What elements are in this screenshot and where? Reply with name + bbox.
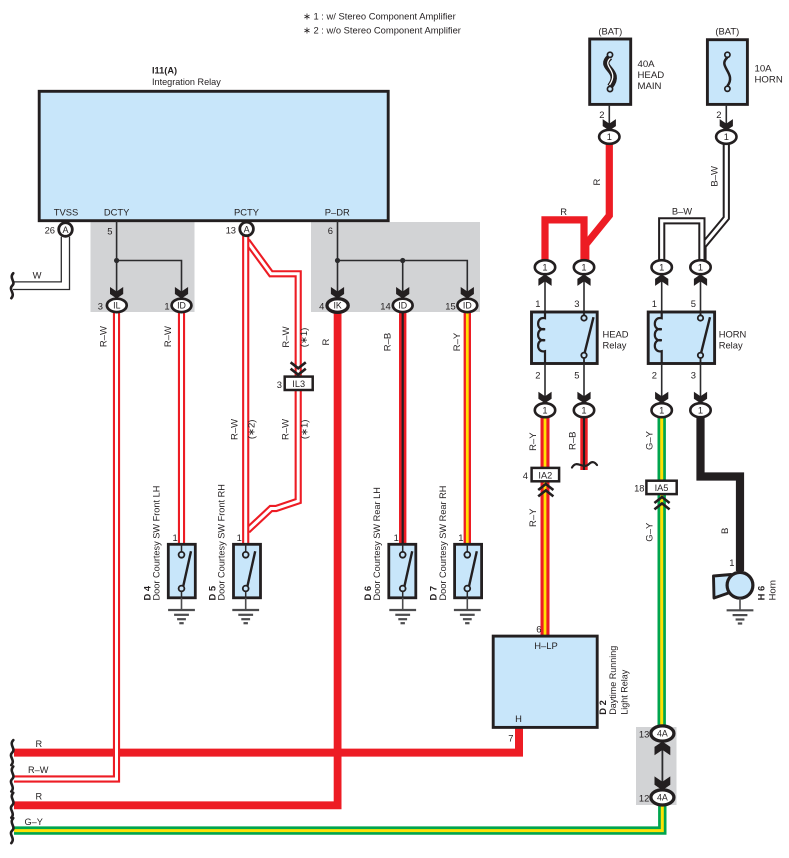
arrow into ID 14 — [396, 287, 409, 299]
door courtesy switch D 5 — [234, 544, 261, 598]
squiggle end of R-B stub — [572, 462, 597, 467]
HORN relay switch — [700, 312, 702, 315]
svg-text:4A: 4A — [657, 793, 668, 803]
wire relay bottom pin to connector x=700.5 — [700, 364, 702, 399]
wire R jumper between HEAD relay pin 1 and pin 3 connectors — [545, 220, 584, 261]
svg-text:R–Y: R–Y — [528, 432, 539, 451]
wire pin 5 DCTY to junction — [116, 221, 118, 261]
svg-text:3: 3 — [98, 300, 103, 311]
wire R-W (*2) from PCTY pin 13 to D5 — [242, 235, 249, 546]
svg-text:6: 6 — [328, 225, 333, 236]
svg-text:15: 15 — [445, 300, 455, 311]
door courtesy switch D 6 — [389, 544, 416, 598]
svg-text:2: 2 — [652, 370, 657, 381]
svg-text:R–W: R–W — [163, 326, 174, 347]
svg-text:R–B: R–B — [567, 432, 578, 450]
wire junction to IL branch — [116, 261, 118, 297]
wire R bus (to IK pin 4) + wire IK vertical — [14, 312, 338, 806]
junction node P-DR 2 — [400, 258, 405, 263]
svg-text:R–B: R–B — [383, 333, 394, 351]
svg-text:IL: IL — [113, 301, 120, 311]
connector 1 above relay x=545 — [535, 260, 555, 274]
svg-text:1: 1 — [172, 532, 177, 543]
wire G-Y bus (to 4A pin 12) — [14, 805, 662, 831]
HEAD relay coil — [538, 312, 545, 364]
arrow into ID — [175, 287, 188, 299]
ground horn — [739, 598, 741, 610]
svg-text:IL3: IL3 — [292, 379, 305, 389]
svg-text:W: W — [33, 270, 42, 281]
svg-text:B: B — [720, 528, 731, 534]
svg-text:R–W: R–W — [281, 326, 292, 347]
svg-text:I11(A): I11(A) — [152, 66, 177, 76]
svg-text:B–W: B–W — [710, 166, 721, 187]
svg-text:1: 1 — [164, 300, 169, 311]
svg-text:ID: ID — [398, 301, 407, 311]
svg-text:1: 1 — [237, 532, 242, 543]
svg-text:R–W: R–W — [230, 419, 241, 440]
wire B from HORN relay pin 3 to horn H6 — [701, 417, 741, 571]
svg-text:1: 1 — [698, 406, 703, 416]
svg-text:R: R — [321, 338, 332, 345]
wire R-W (*1) branch via IL3 to D5 — [247, 241, 298, 531]
svg-text:26: 26 — [45, 225, 55, 236]
ground D 7 — [466, 598, 468, 610]
svg-text:G–Y: G–Y — [25, 817, 43, 827]
wire fuse HORN to connector — [725, 104, 727, 128]
squiggle break W wire — [11, 273, 13, 298]
svg-text:5: 5 — [107, 226, 112, 237]
up arrow below connector x=545 — [544, 278, 546, 312]
svg-text:D 2: D 2 — [597, 700, 608, 715]
ground D 5 — [245, 598, 247, 610]
svg-text:1: 1 — [581, 406, 586, 416]
squiggle R bus 2 — [11, 793, 13, 818]
connector 1 below HEAD fuse — [599, 130, 619, 144]
junction node P-DR 1 — [335, 258, 340, 263]
horn H6 symbol — [714, 575, 732, 599]
svg-text:14: 14 — [380, 300, 390, 311]
svg-text:3: 3 — [277, 379, 282, 390]
svg-text:2: 2 — [599, 109, 604, 120]
svg-text:TVSS: TVSS — [54, 207, 79, 218]
svg-text:R: R — [592, 178, 603, 185]
svg-text:H–LP: H–LP — [534, 640, 557, 651]
svg-text:R–Y: R–Y — [452, 332, 463, 351]
connector 1 below relay x=584 — [574, 403, 594, 417]
svg-text:1: 1 — [542, 406, 547, 416]
svg-text:12: 12 — [639, 793, 649, 804]
svg-text:1: 1 — [542, 263, 547, 273]
svg-text:(∗1): (∗1) — [299, 420, 310, 440]
svg-text:Integration Relay: Integration Relay — [152, 77, 221, 87]
svg-text:R: R — [36, 739, 43, 749]
junction node DCTY — [114, 258, 119, 263]
wire relay bottom pin to connector x=584 — [583, 364, 585, 399]
connector 1 above relay x=700.5 — [690, 260, 710, 274]
svg-text:ID: ID — [177, 301, 186, 311]
wire pin 6 P-DR to junction — [337, 221, 339, 261]
double chevron below IA2 — [538, 484, 553, 490]
up arrow below connector x=661.7 — [661, 278, 663, 312]
svg-text:∗ 2 : w/o Stereo Component Amp: ∗ 2 : w/o Stereo Component Amplifier — [303, 25, 461, 36]
arrow into IL — [110, 287, 123, 299]
connector shading block P-DR (pins 6/4/14/15) — [311, 222, 480, 312]
connector 1 below relay x=545 — [535, 403, 555, 417]
svg-text:(BAT): (BAT) — [715, 26, 739, 37]
svg-text:HEAD: HEAD — [603, 329, 629, 340]
ground D 4 — [181, 598, 183, 610]
HORN relay coil — [655, 312, 662, 364]
svg-text:R–Y: R–Y — [528, 508, 539, 527]
svg-text:1: 1 — [394, 532, 399, 543]
svg-text:B–W: B–W — [672, 206, 692, 217]
svg-text:R: R — [560, 206, 567, 217]
svg-text:Daytime Running: Daytime Running — [608, 646, 618, 715]
arrow into ID 15 — [461, 287, 474, 299]
wire R bus (to D2 pin 7) — [14, 727, 519, 753]
HEAD relay switch — [583, 312, 585, 315]
svg-text:Door Courtesy SW Front LH: Door Courtesy SW Front LH — [152, 486, 162, 601]
arrow pair between 4A connectors — [661, 748, 663, 783]
svg-text:H 6: H 6 — [756, 586, 767, 601]
HEAD relay box — [532, 312, 598, 364]
svg-text:A: A — [62, 225, 68, 235]
wire R-W bus + IL vertical wire (pin 3 to left edge) — [14, 312, 117, 780]
wire G-Y from HORN relay pin 2 via IA5 to 4A pin 13 — [658, 417, 666, 727]
svg-text:3: 3 — [691, 370, 696, 381]
wire B-W from 10A HORN fuse to HORN relay pin 5 connector — [703, 142, 726, 261]
svg-text:13: 13 — [639, 729, 649, 740]
wire R-Y from pin 15 ID to D7 — [464, 312, 471, 547]
svg-text:IA5: IA5 — [655, 483, 669, 493]
door courtesy switch D 7 — [455, 544, 482, 598]
wire relay bottom pin to connector x=661.7 — [661, 364, 663, 399]
connector 1 below HORN fuse — [716, 130, 736, 144]
svg-text:Door Courtesy SW Front RH: Door Courtesy SW Front RH — [217, 484, 227, 600]
svg-text:ID: ID — [463, 301, 472, 311]
svg-text:DCTY: DCTY — [104, 207, 130, 218]
svg-text:Light Relay: Light Relay — [620, 669, 630, 715]
svg-text:R–W: R–W — [28, 765, 49, 775]
svg-text:1: 1 — [458, 532, 463, 543]
svg-text:2: 2 — [716, 109, 721, 120]
svg-text:G–Y: G–Y — [644, 430, 655, 450]
svg-text:(BAT): (BAT) — [598, 26, 622, 37]
svg-text:6: 6 — [536, 624, 541, 635]
svg-text:Relay: Relay — [719, 340, 743, 351]
svg-text:10A: 10A — [755, 64, 773, 75]
svg-text:1: 1 — [535, 298, 540, 309]
wire W from pin 26 to left edge (hollow) — [13, 237, 61, 282]
HORN relay box — [648, 312, 714, 364]
svg-text:1: 1 — [698, 263, 703, 273]
svg-text:HEAD: HEAD — [638, 70, 665, 81]
squiggle R bus 1 — [11, 740, 13, 765]
connector shading block DCTY (pins 5/3/1) — [91, 222, 195, 312]
connector 1 below relay x=661.7 — [652, 403, 672, 417]
svg-text:MAIN: MAIN — [638, 81, 662, 92]
svg-text:(∗2): (∗2) — [247, 420, 258, 440]
svg-text:IA2: IA2 — [538, 470, 552, 480]
svg-text:R–W: R–W — [99, 326, 110, 347]
wire R-W from pin 1 ID to D4 — [178, 312, 185, 547]
svg-text:1: 1 — [659, 263, 664, 273]
svg-text:G–Y: G–Y — [644, 522, 655, 542]
door courtesy switch D 4 — [168, 544, 195, 598]
svg-text:18: 18 — [634, 482, 644, 493]
svg-text:HORN: HORN — [719, 329, 747, 340]
integration relay I11(A) box — [39, 91, 388, 220]
svg-text:(∗1): (∗1) — [299, 328, 310, 348]
svg-text:Relay: Relay — [603, 340, 627, 351]
svg-text:5: 5 — [574, 370, 579, 381]
svg-text:R: R — [36, 792, 43, 802]
squiggle G-Y bus — [11, 818, 13, 843]
svg-text:1: 1 — [729, 557, 734, 568]
svg-text:3: 3 — [574, 298, 579, 309]
svg-text:1: 1 — [581, 263, 586, 273]
svg-text:4: 4 — [319, 300, 324, 311]
wire relay bottom pin to connector x=545 — [544, 364, 546, 399]
svg-text:HORN: HORN — [755, 75, 783, 86]
svg-text:4: 4 — [523, 470, 528, 481]
svg-text:1: 1 — [659, 406, 664, 416]
svg-text:13: 13 — [226, 225, 236, 236]
wire R-B stub from HEAD relay pin 5 — [580, 417, 587, 470]
svg-text:Door Courtesy SW Rear RH: Door Courtesy SW Rear RH — [438, 486, 448, 601]
svg-text:1: 1 — [652, 298, 657, 309]
double chevron into IL3 — [291, 362, 306, 368]
wire R from 40A HEAD MAIN fuse to HEAD relay pin 3 connector — [586, 142, 610, 261]
wire junction to ID branch — [117, 261, 182, 297]
svg-text:IK: IK — [333, 301, 341, 311]
svg-text:H: H — [515, 713, 522, 724]
arrow into IK — [331, 287, 344, 299]
connector 1 below relay x=700.5 — [690, 403, 710, 417]
svg-text:2: 2 — [535, 370, 540, 381]
wire junction bus to pins 4/14/15 — [338, 261, 468, 297]
svg-text:Horn: Horn — [767, 580, 778, 600]
double chevron below IA5 — [654, 497, 669, 503]
D2 Daytime Running Light Relay box — [493, 636, 597, 727]
svg-text:∗ 1 : w/ Stereo Component Ampl: ∗ 1 : w/ Stereo Component Amplifier — [303, 11, 456, 22]
connector 1 above relay x=661.7 — [652, 260, 672, 274]
squiggle R-W bus — [11, 767, 13, 792]
svg-text:PCTY: PCTY — [234, 207, 260, 218]
up arrow below connector x=700.5 — [700, 278, 702, 312]
svg-text:A: A — [244, 224, 250, 234]
up arrow below connector x=584 — [583, 278, 585, 312]
svg-text:R–W: R–W — [281, 419, 292, 440]
svg-text:1: 1 — [724, 132, 729, 142]
svg-text:7: 7 — [508, 733, 513, 744]
svg-text:P–DR: P–DR — [325, 207, 350, 218]
connector 1 above relay x=584 — [574, 260, 594, 274]
svg-text:40A: 40A — [638, 59, 656, 70]
wire B-W jumper between HORN relay pin 1 and pin 5 connectors — [662, 221, 702, 261]
connector shading block 4A — [636, 727, 677, 805]
wire R-B from pin 14 ID to D6 — [399, 312, 406, 547]
svg-text:Door Courtesy SW Rear LH: Door Courtesy SW Rear LH — [372, 487, 382, 600]
svg-text:4A: 4A — [657, 729, 668, 739]
wire R-Y from HEAD relay pin 2 via IA2 to D2 pin 6 — [541, 417, 550, 636]
ground D 6 — [402, 598, 404, 610]
svg-text:1: 1 — [607, 132, 612, 142]
svg-text:5: 5 — [691, 298, 696, 309]
wire fuse HEAD to connector — [608, 104, 610, 128]
